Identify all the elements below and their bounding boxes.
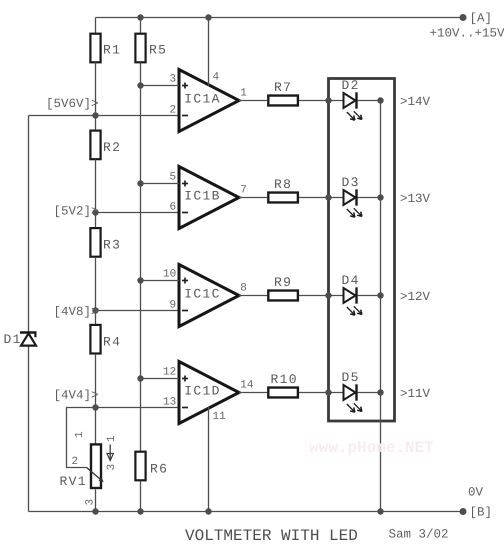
svg-text:D2: D2 (342, 78, 360, 93)
svg-text:R2: R2 (103, 140, 121, 155)
svg-text:1: 1 (74, 431, 86, 438)
resistor R9 (268, 275, 298, 300)
wire R10 to LED box (299, 392, 344, 394)
node box edge D2 (325, 97, 331, 103)
svg-text:11: 11 (213, 411, 227, 423)
LED D2 (344, 92, 362, 120)
node A terminal (460, 14, 467, 21)
svg-text:>13V: >13V (400, 192, 431, 206)
svg-text:1: 1 (240, 88, 247, 100)
svg-text:1: 1 (106, 435, 118, 442)
svg-text:3: 3 (106, 464, 118, 471)
svg-text:3: 3 (170, 74, 177, 86)
svg-text:2: 2 (72, 456, 79, 468)
node 5V2 junction (92, 209, 98, 215)
resistor R3 (90, 228, 121, 257)
node bottom R6 junction (137, 508, 143, 514)
svg-text:R4: R4 (103, 335, 121, 350)
svg-text:>11V: >11V (400, 387, 431, 401)
svg-text:D5: D5 (342, 370, 360, 385)
svg-text:[B]: [B] (470, 506, 493, 520)
wire IC1C output (239, 295, 267, 297)
op-amp IC1C (179, 265, 239, 327)
svg-text:10: 10 (163, 269, 176, 281)
svg-text:>14V: >14V (400, 95, 431, 109)
node IC1D plus junction (137, 375, 143, 381)
resistor R2 (90, 131, 121, 160)
wire R8 to LED box (299, 197, 344, 199)
resistor R8 (268, 177, 298, 202)
wire bottom rail (29, 511, 464, 513)
svg-text:5: 5 (170, 172, 177, 184)
svg-text:[4V4]>: [4V4]> (54, 389, 99, 403)
node box edge D5 (325, 389, 331, 395)
wire R4 bottom to node 4V4 (95, 354, 97, 444)
wire top supply rail (96, 17, 464, 19)
svg-text:www.pHome.NET: www.pHome.NET (309, 439, 434, 457)
zener diode D1 (20, 333, 37, 346)
wire R1 bottom to node 5V6V (95, 63, 97, 132)
svg-text:R10: R10 (271, 372, 298, 387)
wire D2 cathode (358, 100, 381, 102)
wire IC1A pin4 from top rail (208, 18, 210, 87)
op-amp IC1B (179, 167, 239, 229)
svg-text:R1: R1 (103, 43, 121, 58)
node top rail pin4 junction (205, 14, 211, 20)
resistor R1 (90, 34, 121, 63)
svg-text:IC1B: IC1B (184, 189, 220, 204)
wire R1 top (95, 18, 97, 35)
svg-text:8: 8 (240, 283, 247, 295)
svg-text:R6: R6 (150, 462, 168, 477)
svg-text:R7: R7 (274, 80, 292, 95)
wire IC1D pin11 down (208, 407, 210, 512)
wire IC1D output (239, 392, 267, 394)
svg-text:9: 9 (170, 300, 177, 312)
wire node 5V6V horizontal (29, 115, 180, 117)
wire R7 to LED box (299, 100, 344, 102)
wire IC1B output (239, 197, 267, 199)
node IC1B plus junction (137, 180, 143, 186)
svg-text:D1: D1 (4, 332, 22, 347)
wire node 4V4 horizontal (96, 407, 180, 409)
svg-text:7: 7 (240, 185, 247, 197)
node bottom bus junction (377, 508, 383, 514)
wire R5 top (140, 18, 142, 35)
resistor R7 (268, 80, 298, 105)
wire D3 cathode (358, 197, 381, 199)
node 5V6V junction (92, 112, 98, 118)
wire left rail lower (28, 346, 30, 512)
svg-text:R3: R3 (103, 238, 121, 253)
annotation wiper 3-arrow-1 (106, 435, 118, 471)
node bottom pin11 junction (205, 508, 211, 514)
svg-text:[4V8]>: [4V8]> (54, 305, 99, 319)
svg-text:6: 6 (170, 202, 177, 214)
svg-text:D3: D3 (342, 175, 360, 190)
svg-text:14: 14 (240, 380, 254, 392)
svg-text:RV1: RV1 (60, 474, 87, 489)
resistor R6 (135, 452, 168, 481)
resistor R5 (135, 34, 167, 63)
wire IC1B plus input (141, 183, 180, 185)
LED D5 (344, 384, 362, 412)
wire IC1C plus input (141, 280, 180, 282)
node B terminal (460, 508, 467, 515)
wire R5 rail down (140, 63, 142, 453)
svg-text:[5V6V]>: [5V6V]> (46, 97, 99, 111)
node box edge D4 (325, 292, 331, 298)
wire D4 cathode (358, 295, 381, 297)
resistor R4 (90, 325, 121, 354)
svg-text:3: 3 (85, 499, 97, 506)
svg-text:R9: R9 (274, 275, 292, 290)
svg-text:R8: R8 (274, 177, 292, 192)
svg-text:IC1D: IC1D (184, 384, 220, 399)
wire R6 bottom (140, 481, 142, 512)
op-amp IC1D (179, 362, 239, 424)
svg-text:0V: 0V (468, 486, 484, 500)
LED D3 (344, 189, 362, 217)
svg-text:IC1C: IC1C (184, 287, 220, 302)
wire node 4V8 horizontal (96, 310, 180, 312)
node box edge D3 (325, 194, 331, 200)
svg-text:12: 12 (163, 367, 176, 379)
svg-text:[A]: [A] (470, 12, 493, 26)
wire RV1 bottom (95, 490, 97, 512)
wire cathode bus down (380, 101, 382, 512)
svg-text:+10V..+15V: +10V..+15V (430, 27, 504, 41)
node IC1A plus junction (137, 82, 143, 88)
svg-text:13: 13 (163, 397, 176, 409)
LED display frame box (329, 79, 395, 422)
potentiometer RV1 (87, 444, 104, 488)
node D4 bus junction (377, 292, 383, 298)
wire node 5V2 horizontal (96, 212, 180, 214)
wire RV1 wiper loop (67, 408, 96, 468)
node D3 bus junction (377, 194, 383, 200)
wire R9 to LED box (299, 295, 344, 297)
wire R2 bottom to node 5V2 (95, 160, 97, 229)
node top rail R5 junction (137, 14, 143, 20)
node 4V4 junction (92, 404, 98, 410)
svg-text:Sam 3/02: Sam 3/02 (389, 528, 449, 542)
node bottom RV1 junction (92, 508, 98, 514)
resistor R10 (268, 372, 298, 397)
wire IC1D plus input (141, 378, 180, 380)
op-amp IC1A (179, 70, 239, 132)
wire left rail upper (28, 116, 30, 333)
svg-text:VOLTMETER WITH LED: VOLTMETER WITH LED (185, 527, 358, 544)
LED D4 (344, 287, 362, 315)
svg-text:4: 4 (213, 72, 220, 84)
wire IC1A plus input (141, 85, 180, 87)
node D5 bus junction (377, 389, 383, 395)
wire R3 bottom to node 4V8 (95, 257, 97, 326)
wire D5 cathode (358, 392, 381, 394)
svg-text:2: 2 (170, 105, 177, 117)
node 4V8 junction (92, 307, 98, 313)
node IC1C plus junction (137, 277, 143, 283)
svg-text:>12V: >12V (400, 290, 431, 304)
svg-text:R5: R5 (149, 43, 167, 58)
svg-text:D4: D4 (342, 273, 360, 288)
wire IC1A output (239, 100, 267, 102)
svg-text:[5V2]>: [5V2]> (54, 205, 99, 219)
svg-text:IC1A: IC1A (184, 92, 220, 107)
node D2 bus junction (377, 97, 383, 103)
